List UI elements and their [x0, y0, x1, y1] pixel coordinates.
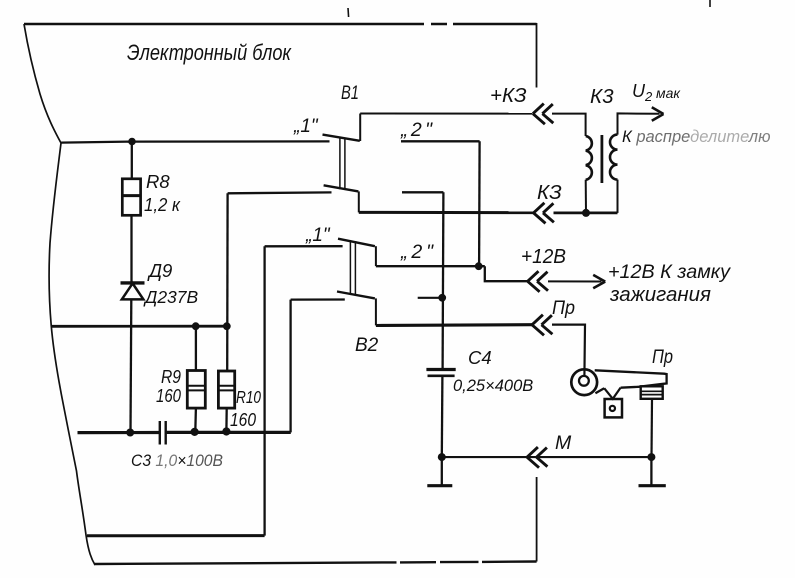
resistor R9 body: [187, 371, 205, 409]
wire: +K3 continues to ignition coil primary: [552, 114, 586, 136]
switch B2 pole1 moving arm: [338, 239, 375, 247]
wire: B2 contact2 stub to C4 run: [418, 297, 443, 299]
svg-text:Д237В: Д237В: [143, 287, 199, 307]
transformer K3 primary winding (left): [586, 136, 592, 180]
arrowhead: +12V external arrow: [593, 275, 605, 288]
svg-text:„2": „2": [400, 241, 434, 263]
switch B1 pole2 pivot lead down to K3 wire: [358, 191, 360, 212]
svg-text:0,25×400В: 0,25×400В: [453, 377, 533, 395]
wire: vertical run x264.5 from B2 contact1 down to bottom hook: [263, 246, 265, 535]
wire: secondary top lead to U2 output: [618, 113, 660, 134]
wire: K3 bold rail from B1 pole2 pivot to connector: [359, 211, 534, 214]
node junction: fuse lead on M rail: [647, 453, 655, 461]
node junction: x479.5 run meets +12V wire: [475, 262, 483, 270]
fuse terminal block stripes: [641, 391, 663, 394]
svg-text:С3 1,0×100В: С3 1,0×100В: [131, 452, 223, 470]
svg-text:1,2 к: 1,2 к: [144, 194, 181, 215]
fuse eyelet inner hole: [579, 376, 589, 386]
connector arrow +K3 (double chevron): [533, 104, 553, 125]
wire: C4 bottom lead to M rail: [441, 376, 444, 457]
svg-text:Д9: Д9: [147, 260, 172, 281]
wire: Pr external lead down to fuse: [552, 325, 585, 377]
switch B1 mechanical link (double line): [340, 137, 345, 190]
switch B2 pole2 moving arm: [337, 292, 375, 299]
transformer K3 secondary winding (right): [610, 135, 618, 180]
block boundary: torn left edge: [24, 24, 95, 565]
svg-text:160: 160: [156, 386, 181, 406]
wire: M ground rail: [442, 456, 652, 458]
svg-text:Электронный блок: Электронный блок: [127, 40, 292, 65]
scan speck: tick top right: [709, 0, 711, 7]
resistor R8 body: [122, 179, 140, 216]
ground symbol left (chassis): [441, 457, 443, 485]
svg-text:С4: С4: [468, 347, 492, 368]
wire: B1 contact 2 lower pole: [402, 191, 443, 193]
wire: Pr bold rail from B2 pole2 pivot to connector: [376, 323, 532, 327]
svg-text:Пр: Пр: [652, 347, 673, 368]
wire: R9 top lead: [195, 326, 197, 370]
svg-text:+12В К замку: +12В К замку: [608, 262, 732, 283]
switch B1 pole1 pivot lead up to +K3 wire: [359, 114, 361, 142]
wire: R9 bottom lead: [194, 408, 197, 432]
switch B2 pole1 fixed contact wire y246: [265, 245, 343, 247]
block boundary: top border of electronic unit: [24, 23, 537, 26]
scan speck: tick above top border: [347, 8, 350, 17]
switch B2 pole2 pivot lead down to Pr wire: [375, 298, 377, 325]
block boundary: bottom border: [94, 562, 537, 565]
svg-text:+КЗ: +КЗ: [490, 84, 527, 107]
fuse body lever: [595, 370, 667, 393]
node junction: R10 lead on rail y326: [223, 322, 231, 330]
resistor R9 internal bands: [187, 386, 205, 391]
node junction: C4 on M rail: [438, 453, 446, 461]
fuse contact V notch: [604, 388, 620, 399]
wire: R8 bottom to diode Д9: [130, 215, 132, 282]
node junction: R8 top at (132,141.5): [128, 138, 136, 146]
wire: B2 pole1 common to +12V node y266: [376, 265, 485, 267]
svg-text:160: 160: [230, 410, 256, 430]
fuse lower contact rivet: [610, 406, 615, 411]
wire: fuse terminal lead down to M rail: [650, 399, 653, 457]
wire: R10 bottom lead: [225, 408, 228, 431]
ground symbol right (chassis): [650, 457, 652, 485]
svg-text:„1": „1": [305, 225, 331, 246]
resistor R10 internal bands: [218, 386, 234, 391]
capacitor C3 plates: [160, 421, 166, 445]
svg-text:R9: R9: [161, 367, 181, 387]
diode Д9 anode triangle: [122, 283, 144, 299]
diode Д9 cathode bar: [121, 281, 145, 284]
wire: +K3 output from B1 pole1 pivot: [360, 113, 532, 115]
wire: +12V external lead with arrowhead: [548, 280, 602, 282]
svg-text:М: М: [555, 432, 572, 454]
svg-text:„2": „2": [400, 119, 433, 141]
node junction: stub on C4 run: [438, 294, 446, 302]
wire: B1 contact-1 lower pole wire y193: [228, 191, 332, 194]
wire: primary bottom lead: [585, 180, 587, 213]
switch B2 pole2 fixed contact wire y299: [291, 298, 345, 300]
wire: +12V jog down and out to connector: [485, 266, 528, 281]
svg-text:В2: В2: [355, 335, 379, 356]
wire: supply rail y141 from torn edge to B1 contact 1: [61, 141, 330, 142]
svg-text:U: U: [632, 81, 646, 101]
wire: diode Д9 lead down to C3 rail: [129, 299, 132, 432]
node junction: R10 on bottom rail: [222, 427, 230, 435]
connector arrow K3 lower (double chevron): [534, 203, 554, 224]
svg-text:Пр: Пр: [552, 298, 575, 319]
wire: left rail y326 from torn edge to R10 lead: [51, 325, 228, 328]
wire: R8 top lead: [131, 142, 133, 179]
wire: R10 long lead from corner y193 down through rail: [226, 193, 229, 371]
connector arrow +12V (double chevron): [528, 271, 548, 292]
switch B2 pole1 pivot lead down: [375, 246, 377, 266]
wire: bottom hook bold wire to torn edge: [87, 534, 265, 537]
fuse lower contact box: [605, 399, 622, 417]
connector arrow М (double chevron): [527, 447, 547, 468]
node junction: R9 top on rail y326: [192, 322, 200, 330]
switch B1 pole1 moving arm: [323, 135, 360, 141]
switch B1 pole2 moving arm: [324, 185, 359, 191]
wire: bottom rail y432 left part to C3: [78, 431, 160, 434]
svg-text:зажигания: зажигания: [609, 283, 711, 306]
wire: vertical run x479.5 from B1 contact2 down to +12V node: [478, 141, 481, 266]
block boundary: right border lower segment: [536, 477, 538, 562]
wire: K3 lower wire to coil common: [554, 211, 618, 214]
svg-text:К распределителю: К распределителю: [622, 128, 771, 146]
fuse terminal block: [641, 386, 663, 399]
node junction: coil primary bottom: [582, 209, 590, 217]
node junction: diode on bottom rail: [126, 429, 134, 437]
arrowhead: U2 output arrow: [652, 107, 664, 121]
resistor R10 body: [218, 371, 234, 408]
svg-text:„1": „1": [293, 116, 319, 137]
connector arrow Пр (double chevron): [532, 315, 552, 336]
svg-text:В1: В1: [341, 83, 359, 104]
svg-text:R10: R10: [236, 387, 261, 407]
svg-text:2: 2: [644, 89, 653, 104]
wire: B1 contact 2 upper pole: [401, 140, 480, 142]
svg-text:R8: R8: [146, 171, 170, 192]
switch B2 mechanical link (double line): [350, 240, 355, 295]
wire: bottom rail y432 right part from C3 to B2 wire: [166, 431, 291, 434]
fuse eyelet outer ring: [571, 369, 597, 395]
node junction: R9 on bottom rail: [191, 428, 199, 436]
wire: secondary bottom lead: [617, 180, 619, 213]
capacitor C4 plates: [426, 368, 455, 371]
svg-text:К3: К3: [590, 85, 614, 108]
wire: vertical run x290.5 from B2 contact2 down to bottom rail: [289, 300, 291, 433]
svg-text:+12В: +12В: [521, 246, 566, 268]
svg-text:КЗ: КЗ: [537, 181, 562, 204]
resistor R8 internal band: [122, 194, 140, 197]
block boundary: right border upper segment: [536, 23, 538, 88]
svg-text:мак: мак: [656, 85, 681, 101]
wire: vertical run x443 down to C4 top plate: [441, 192, 444, 369]
transformer K3 core: [601, 135, 604, 183]
